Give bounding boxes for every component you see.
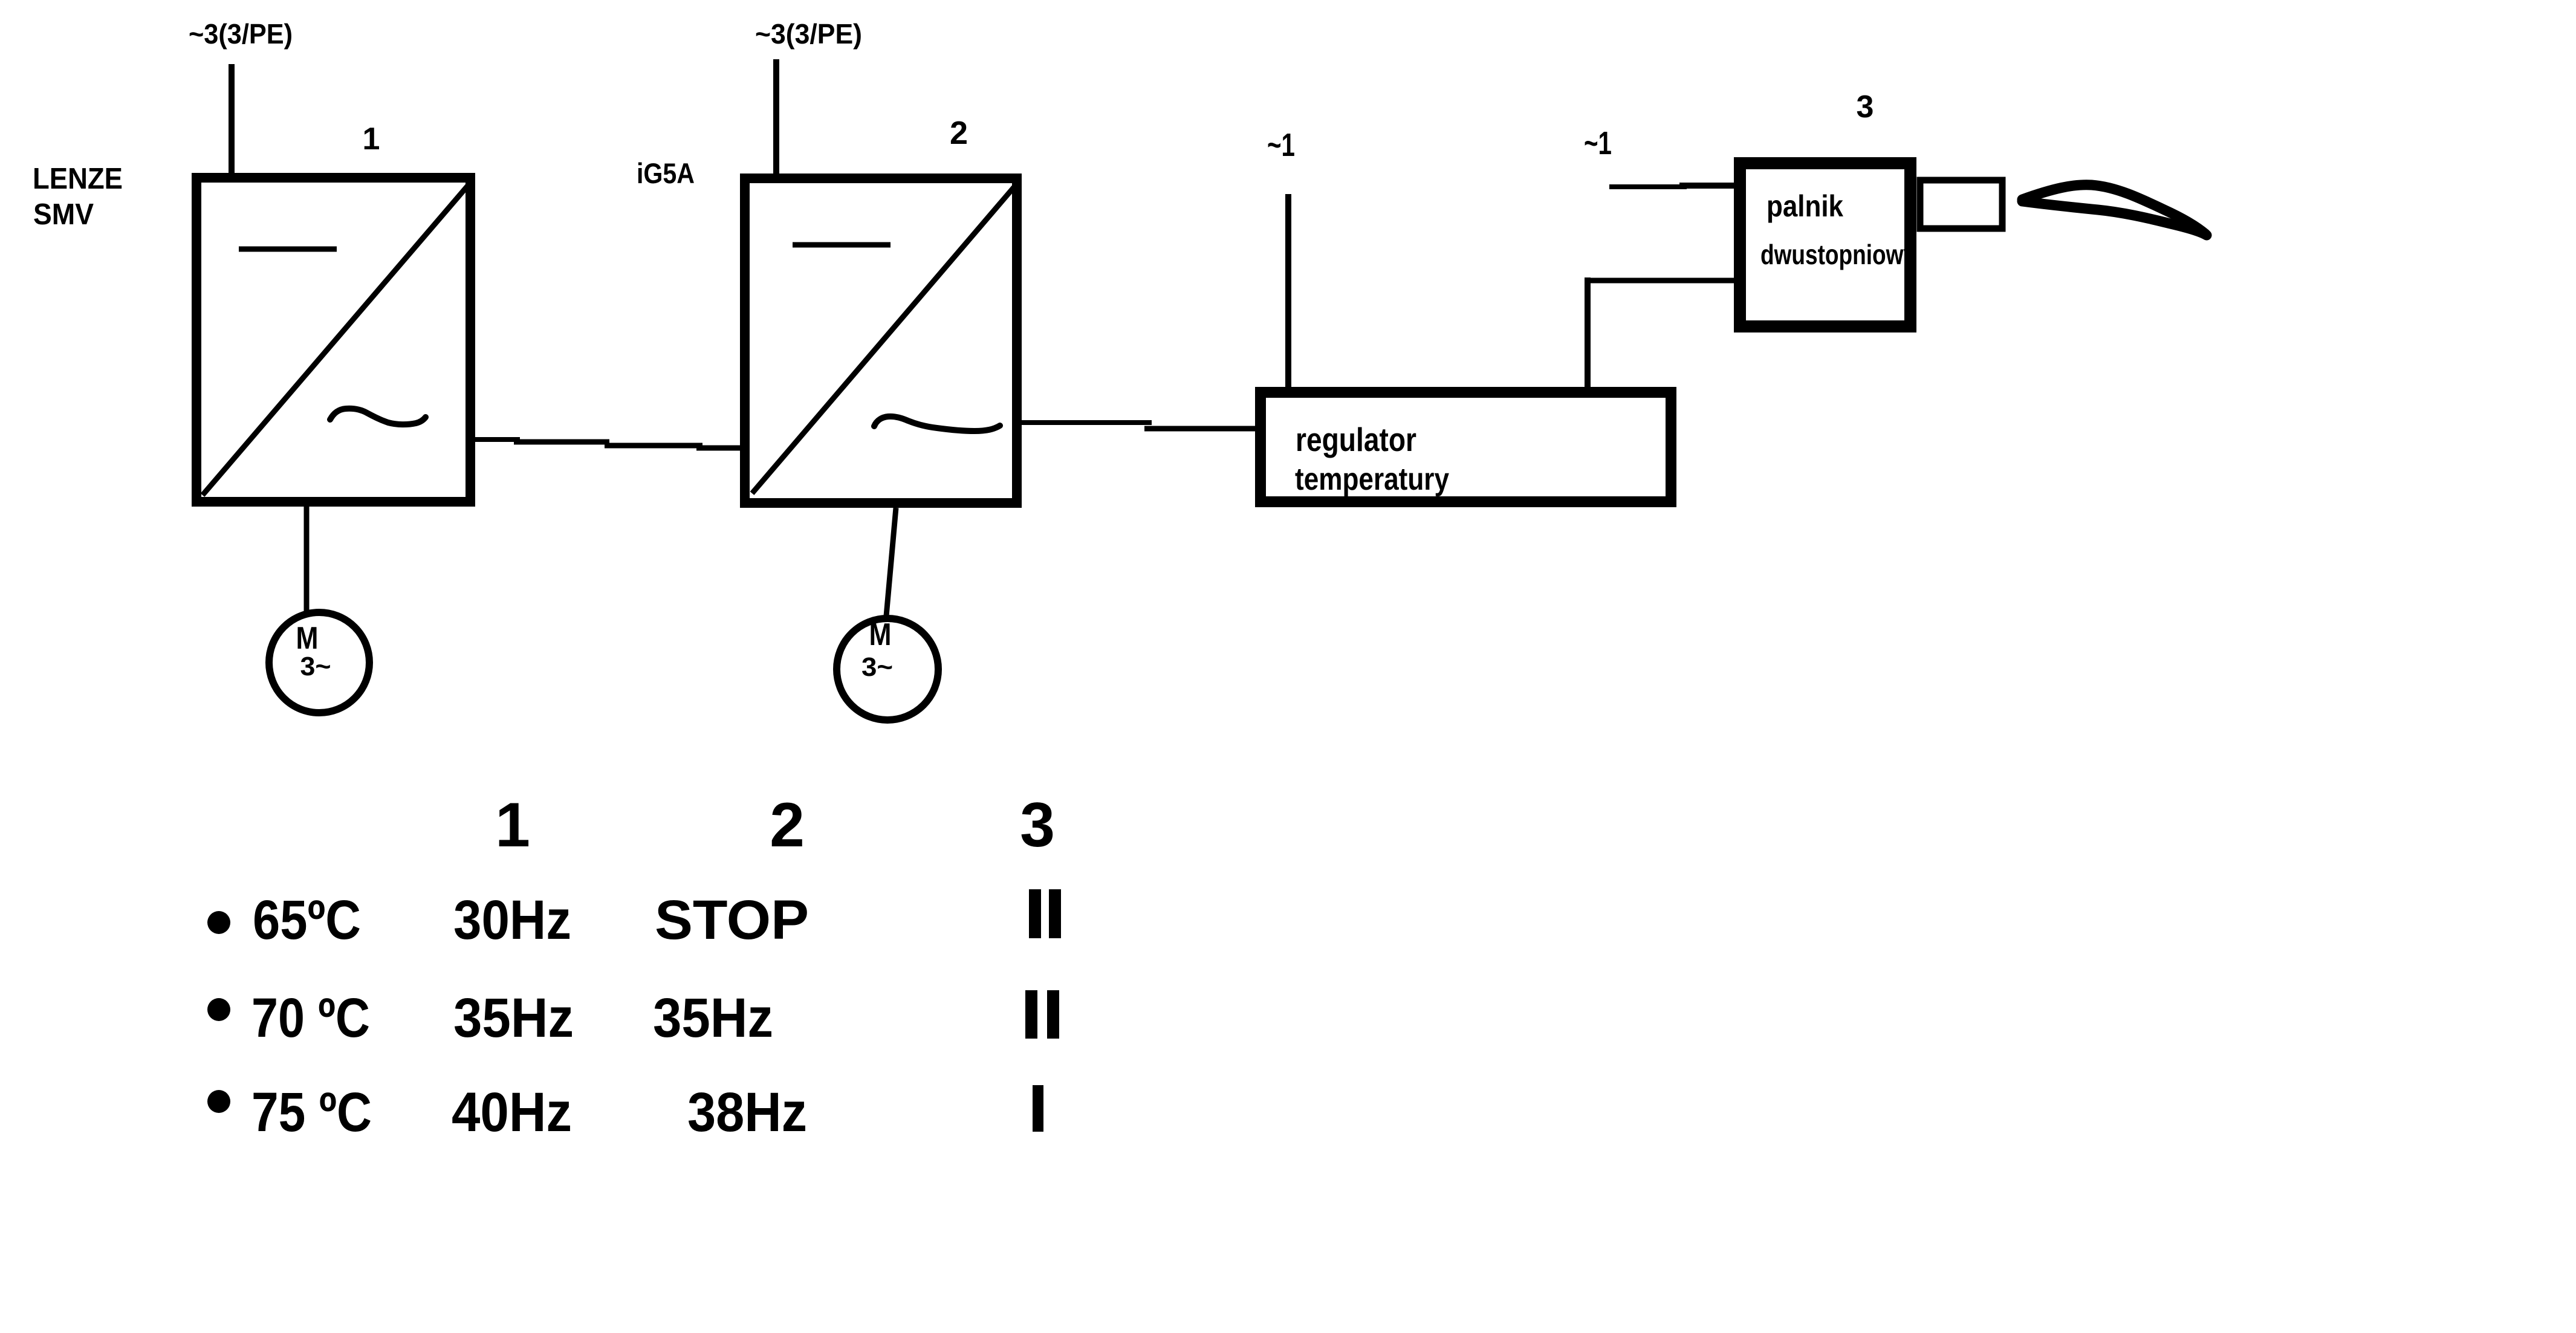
wire regulator to palnik lower input bbox=[1585, 272, 1749, 392]
svg-text:2: 2 bbox=[950, 115, 968, 151]
wire ~1 to palnik upper input bbox=[1609, 186, 1739, 187]
svg-text:SMV: SMV bbox=[33, 198, 94, 231]
wire inverter 1 to motor M1 bbox=[304, 507, 310, 612]
svg-text:M: M bbox=[869, 617, 892, 652]
svg-text:35Hz: 35Hz bbox=[653, 987, 773, 1049]
svg-text:~1: ~1 bbox=[1267, 127, 1295, 163]
label regulator temperatury bbox=[1295, 421, 1449, 497]
flame doodle bbox=[2022, 185, 2207, 235]
frequency inverter U2 box bbox=[745, 178, 1017, 503]
label M 3~ motor 2 bbox=[861, 617, 893, 682]
svg-text:38Hz: 38Hz bbox=[687, 1082, 807, 1143]
svg-text:75 ºC: 75 ºC bbox=[251, 1082, 372, 1143]
svg-text:M: M bbox=[296, 621, 319, 656]
svg-text:LENZE: LENZE bbox=[33, 163, 123, 195]
svg-text:3~: 3~ bbox=[300, 652, 331, 681]
motor M2 circle bbox=[837, 618, 938, 720]
svg-text:65ºC: 65ºC bbox=[253, 889, 361, 951]
wire inverter 1 output to inverter 2 bbox=[470, 439, 745, 448]
cell II row 1 bbox=[1029, 889, 1061, 938]
diagonal divider in inverter 1 bbox=[203, 182, 471, 495]
svg-text:40Hz: 40Hz bbox=[452, 1082, 572, 1143]
svg-text:regulator: regulator bbox=[1296, 421, 1416, 458]
regulator temperatury box bbox=[1260, 392, 1671, 502]
frequency inverter U1 box bbox=[196, 178, 470, 502]
svg-text:~1: ~1 bbox=[1584, 125, 1612, 161]
svg-text:1: 1 bbox=[495, 790, 530, 860]
svg-text:temperatury: temperatury bbox=[1295, 462, 1449, 497]
label palnik dwustopniowy bbox=[1760, 189, 1916, 270]
palnik dwustopniowy box bbox=[1740, 163, 1910, 326]
svg-text:~3(3/PE): ~3(3/PE) bbox=[755, 18, 862, 50]
svg-text:palnik: palnik bbox=[1767, 189, 1843, 223]
wire ~1 drop to regulator bbox=[1285, 194, 1291, 392]
label M 3~ motor 1 bbox=[296, 621, 331, 681]
bullet row 2 bbox=[207, 998, 230, 1021]
svg-text:70 ºC: 70 ºC bbox=[251, 987, 370, 1049]
bullet row 1 bbox=[207, 911, 230, 934]
bullet row 3 bbox=[207, 1090, 230, 1113]
svg-text:~3(3/PE): ~3(3/PE) bbox=[189, 18, 293, 50]
svg-text:3~: 3~ bbox=[861, 652, 893, 682]
wire inverter 2 to motor M2 bbox=[886, 508, 896, 623]
AC tilde in inverter 1 bbox=[330, 409, 426, 424]
svg-text:STOP: STOP bbox=[655, 889, 809, 951]
wire inverter 2 output to regulator bbox=[1022, 423, 1257, 429]
svg-text:35Hz: 35Hz bbox=[453, 987, 574, 1049]
cell II row 2 bbox=[1025, 990, 1059, 1039]
motor M1 circle bbox=[269, 612, 369, 713]
cell I row 3 bbox=[1033, 1085, 1043, 1132]
DC symbol in inverter 1 bbox=[239, 247, 337, 252]
wire supply drop to inverter 2 bbox=[773, 59, 779, 181]
wire supply drop to inverter 1 bbox=[229, 64, 235, 179]
svg-text:dwustopniowy: dwustopniowy bbox=[1760, 239, 1916, 270]
svg-text:2: 2 bbox=[770, 790, 805, 860]
svg-text:iG5A: iG5A bbox=[637, 157, 695, 189]
burner nozzle bbox=[1920, 180, 2002, 229]
svg-text:3: 3 bbox=[1020, 790, 1055, 860]
label LENZE SMV bbox=[33, 163, 123, 231]
diagonal divider in inverter 2 bbox=[752, 184, 1017, 493]
svg-text:3: 3 bbox=[1857, 89, 1874, 125]
svg-text:1: 1 bbox=[363, 122, 380, 157]
AC tilde in inverter 2 bbox=[874, 417, 1000, 431]
DC symbol in inverter 2 bbox=[793, 242, 891, 248]
svg-text:30Hz: 30Hz bbox=[453, 889, 571, 951]
